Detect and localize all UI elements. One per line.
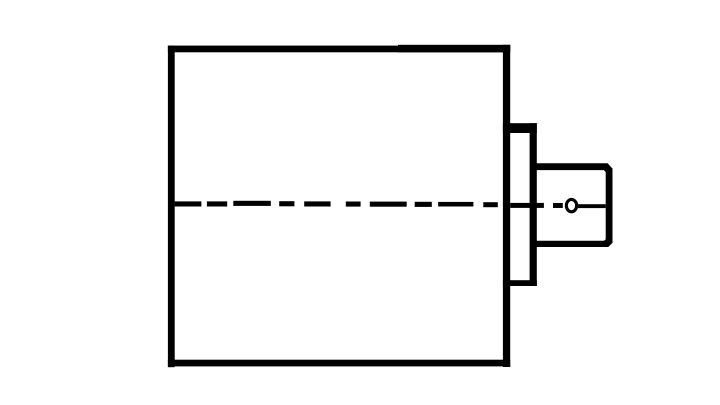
shaft outer outline [532, 163, 613, 247]
centerline dash 10 [483, 202, 498, 207]
body top edge [168, 46, 510, 53]
centerline dash 8 [415, 202, 432, 207]
centerline dash 4 [279, 201, 294, 206]
flange bottom edge [503, 280, 537, 286]
body bottom edge [168, 360, 510, 367]
centerline dash 2 [207, 201, 227, 206]
flange right edge [530, 123, 537, 286]
centerline dash 13 to shaft end [578, 204, 606, 208]
centerline dash 9 [438, 202, 473, 207]
centerline dash 12 [553, 203, 563, 208]
body top edge step [398, 45, 510, 53]
shaft inner face [532, 170, 606, 241]
centerline dash 1 [175, 201, 202, 206]
hole circle on shaft [566, 199, 576, 211]
centerline dash 5 [304, 201, 330, 206]
centerline dash 11 crossing flange [510, 203, 544, 208]
body right edge [503, 45, 510, 367]
centerline dash 6 [346, 202, 361, 207]
flange top edge [503, 123, 537, 133]
centerline dash 7 [370, 202, 407, 207]
centerline dash 3 [233, 201, 270, 206]
body left edge [168, 46, 175, 368]
